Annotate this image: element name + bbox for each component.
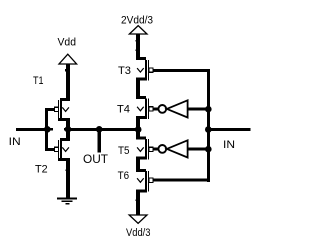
Vdd supply arrow: [59, 54, 77, 64]
node OUT junction dot: [96, 126, 103, 133]
wire output rail: [68, 128, 138, 131]
svg-text:Vdd/3: Vdd/3: [126, 227, 151, 239]
wire T3 gate to control bus: [153, 69, 210, 72]
wire bus T3-T4: [136, 80, 140, 99]
node U1 input junction dot: [205, 106, 212, 113]
svg-text:T1: T1: [33, 75, 44, 87]
wire OUT stub: [98, 129, 102, 152]
node A junction dot: [44, 126, 51, 133]
ground: [57, 198, 77, 203]
svg-text:OUT: OUT: [83, 154, 108, 166]
node T4/T5 drain junction dot: [135, 126, 142, 133]
svg-text:Vdd: Vdd: [58, 37, 77, 49]
transistor T5: [136, 137, 158, 160]
svg-text:T5: T5: [118, 145, 130, 157]
transistor T1: [45, 98, 70, 131]
Vdd/3 supply arrow (down): [129, 215, 147, 223]
wire T6 source to Vdd/3 arrow: [136, 193, 140, 216]
node B junction dot: [65, 126, 72, 133]
wire Vdd to T1 drain: [66, 64, 70, 101]
node U2 input junction dot: [205, 146, 212, 153]
transistor T6: [136, 169, 153, 193]
wire control bus (right vertical): [207, 69, 210, 182]
IN input wire (right): [208, 128, 250, 131]
svg-text:IN: IN: [223, 139, 235, 151]
svg-text:IN: IN: [9, 136, 21, 148]
wire bus T4-T5: [136, 119, 140, 140]
svg-text:T3: T3: [118, 65, 131, 77]
wire gate bus T1-T2: [45, 108, 48, 151]
node IN junction dot: [205, 126, 212, 133]
IN input wire (left): [16, 128, 47, 131]
wire 2Vdd/3 to T3 drain: [136, 34, 140, 60]
2Vdd/3 supply arrow: [129, 26, 147, 34]
inverter U2 (drives T5 gate): [158, 140, 210, 157]
svg-text:T6: T6: [118, 170, 130, 182]
wire T6 gate to control bus: [153, 179, 210, 182]
inverter U1 (drives T4 gate): [158, 100, 210, 117]
svg-text:T2: T2: [35, 164, 48, 176]
svg-text:2Vdd/3: 2Vdd/3: [121, 15, 153, 27]
svg-text:T4: T4: [117, 104, 130, 116]
wire bus T5-T6: [136, 160, 140, 173]
transistor T3: [136, 57, 153, 81]
transistor T2: [45, 131, 70, 198]
transistor T4: [136, 96, 158, 119]
